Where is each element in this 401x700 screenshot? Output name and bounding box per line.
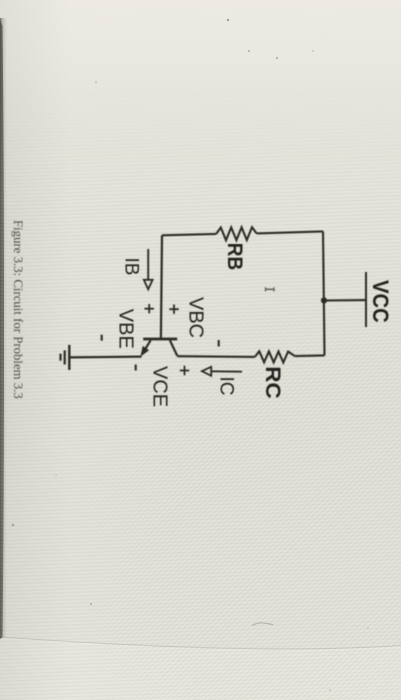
wire: emitter to ground (69, 356, 142, 359)
svg-text:VCE: VCE (149, 366, 171, 407)
ground (61, 345, 70, 370)
transistor Q1 base bar (143, 338, 177, 341)
svg-text:RB: RB (223, 243, 246, 270)
svg-text:VBE: VBE (115, 309, 137, 349)
wire: VCC tap (324, 299, 366, 301)
wire: bottom side from RC to collector (177, 355, 255, 358)
power terminal VCC bar (365, 272, 367, 327)
polarity + of VBC (near base) (169, 305, 178, 314)
svg-text:RC: RC (261, 366, 285, 399)
polarity + of VBE (near base) (145, 304, 154, 313)
lower page (under the top page's bottom edge) (0, 637, 401, 700)
node: junction dot at VCC tap (321, 297, 327, 303)
wire: bottom side from corner to RC (295, 354, 325, 357)
svg-text:VCC: VCC (368, 280, 392, 323)
resistor RB (216, 227, 256, 240)
stray printed mark I (roman numeral artifact) (266, 287, 275, 291)
polarity - of VCE (near emitter) (135, 365, 137, 371)
polarity - of VBE (near emitter) (101, 335, 103, 341)
dark left edge of photo (0, 20, 4, 639)
wire: top side from base corner to RB (162, 234, 216, 235)
svg-text:IC: IC (216, 377, 237, 396)
wire: left side base wire (161, 235, 162, 338)
transistor Q1 emitter segment (144, 340, 151, 352)
current arrow IC head (202, 367, 211, 376)
page bottom edge line (0, 637, 401, 649)
svg-text:VBC: VBC (185, 297, 207, 338)
current arrow IB shaft (147, 249, 149, 280)
transistor Q1 emitter arrowhead (141, 347, 148, 356)
current arrow IB head (144, 280, 153, 290)
resistor RC (255, 351, 295, 362)
polarity - of VBC (near collector) (218, 340, 220, 347)
current arrow IC shaft (212, 370, 243, 372)
polarity + of VCE (near collector) (180, 366, 189, 375)
svg-text:IB: IB (121, 258, 142, 276)
transistor Q1 collector segment (170, 340, 177, 356)
svg-text:Figure 3.3: Circuit for Proble: Figure 3.3: Circuit for Problem 3.3 (11, 220, 25, 399)
wire: top side from RB to top-right corner (257, 231, 323, 233)
wire: right side VCC rail (323, 231, 325, 355)
dust specks (227, 19, 229, 21)
